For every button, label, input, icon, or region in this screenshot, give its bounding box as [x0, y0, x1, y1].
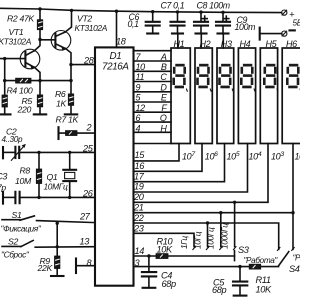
node rail-C7 — [176, 10, 179, 13]
node R8 top — [37, 151, 40, 154]
svg-text:"Работа": "Работа" — [244, 256, 279, 265]
wire pin 14 line — [134, 255, 235, 257]
svg-text:1000Гц: 1000Гц — [219, 223, 229, 249]
svg-text:C: C — [160, 72, 167, 82]
resistor R11 — [249, 264, 261, 269]
svg-text:B: B — [161, 62, 167, 72]
svg-text:R2 47K: R2 47K — [7, 14, 35, 24]
wire ladder cell top (pin15 cell) — [134, 143, 172, 145]
node VT2 emitter / R4 right — [69, 79, 72, 82]
svg-text:S1: S1 — [12, 210, 22, 220]
svg-text:KT3102A: KT3102A — [0, 37, 32, 47]
switch S1 — [2, 216, 95, 223]
svg-text:28: 28 — [83, 56, 95, 66]
svg-text:14: 14 — [135, 246, 145, 256]
wire 1000Hz stub — [234, 202, 236, 246]
svg-text:19: 19 — [134, 182, 144, 192]
switch S2 — [2, 240, 95, 247]
display labels H1-H6 — [174, 39, 298, 49]
capacitor C4 — [142, 256, 156, 288]
svg-text:12: 12 — [136, 103, 146, 113]
resistor R7 — [59, 127, 96, 139]
svg-text:H1: H1 — [174, 39, 185, 49]
svg-text:4..30p: 4..30p — [2, 135, 23, 144]
S4 contact ticks — [277, 247, 295, 251]
capacitor C8 and H2 top stub — [194, 12, 208, 48]
svg-text:10Гц: 10Гц — [192, 231, 202, 249]
svg-text:68p: 68p — [212, 285, 227, 295]
svg-text:7216A: 7216A — [102, 61, 129, 72]
svg-text:C7 0,1: C7 0,1 — [161, 0, 185, 10]
resistor R8 — [36, 152, 41, 197]
wire pin 18 — [116, 11, 118, 47]
node rail-C8 — [199, 10, 202, 13]
node rail-R2 — [38, 7, 41, 10]
bottom pins 15-23 — [133, 150, 145, 233]
wire 100Hz stub — [220, 213, 222, 247]
svg-text:H3: H3 — [221, 39, 232, 49]
svg-text:H2: H2 — [200, 39, 211, 49]
wire pin 20 to H5 — [134, 144, 269, 203]
svg-text:21: 21 — [133, 203, 144, 213]
svg-text:S3: S3 — [238, 245, 250, 255]
segment ladder lines A-H — [134, 51, 172, 133]
svg-text:С3: С3 — [0, 172, 8, 182]
resistor R2 — [37, 9, 42, 40]
node pin21/H6 — [291, 211, 294, 214]
node S1 line / R9 — [56, 222, 59, 225]
wire pin 3 line — [134, 266, 279, 268]
svg-text:"Фиксация": "Фиксация" — [1, 224, 42, 234]
wire pin 22 to S4 left contact — [134, 223, 279, 249]
wire pin 23 to 1Hz stub — [134, 233, 195, 246]
node rail-pin18 — [115, 10, 118, 13]
node rail-C6 — [151, 10, 154, 13]
svg-text:100Гц: 100Гц — [206, 227, 216, 249]
wire pin 15 to H1 — [134, 144, 180, 161]
capacitor C2 (trimmer) — [3, 144, 95, 161]
svg-text:C8 100m: C8 100m — [197, 0, 230, 10]
transistor VT2 — [51, 10, 71, 94]
resistor R6 — [68, 94, 73, 115]
electrolytic plus C8 — [202, 16, 207, 21]
svg-text:10K: 10K — [256, 285, 273, 295]
svg-text:0,1: 0,1 — [128, 19, 140, 29]
rotated labels 1Hz-1000Hz — [179, 223, 230, 249]
node C4 top — [147, 254, 150, 257]
svg-text:9: 9 — [136, 82, 141, 92]
resistor R4 — [5, 78, 71, 83]
svg-text:68p: 68p — [162, 279, 177, 289]
svg-text:VT2: VT2 — [77, 14, 92, 24]
node R8 bottom — [37, 196, 40, 199]
resistor R5 — [37, 95, 42, 115]
svg-text:S2: S2 — [8, 236, 18, 246]
svg-text:"Работа": "Работа" — [293, 254, 301, 263]
svg-text:220: 220 — [17, 104, 32, 114]
7-seg digits — [172, 64, 187, 92]
wire pin 16 to H2 — [134, 144, 203, 172]
ground R3 — [0, 113, 11, 115]
segment letters A-H — [160, 52, 168, 134]
svg-text:Q: Q — [160, 113, 167, 123]
wire 10Hz stub — [207, 223, 209, 247]
capacitor C3 (label cut) — [3, 192, 95, 204]
node crystal bottom — [68, 196, 71, 199]
resistor R9 — [55, 223, 60, 276]
capacitor C7 and H1 top stub — [171, 12, 185, 48]
svg-text:KT3102A: KT3102A — [75, 23, 108, 33]
svg-text:R7 1K: R7 1K — [56, 114, 80, 124]
svg-text:2: 2 — [86, 123, 92, 133]
svg-text:16: 16 — [135, 161, 146, 171]
capacitor C5 — [233, 267, 247, 296]
svg-text:H6: H6 — [286, 39, 297, 49]
svg-text:7p: 7p — [0, 182, 6, 192]
ground R6 — [65, 113, 77, 115]
right pins 7,10,11,9,5,12,6,4 — [136, 52, 146, 134]
svg-text:H: H — [160, 123, 167, 133]
svg-text:100m: 100m — [235, 22, 256, 32]
svg-text:22: 22 — [133, 213, 144, 223]
wire +5V top rail — [0, 8, 282, 12]
svg-text:11: 11 — [136, 72, 145, 82]
svg-text:15: 15 — [135, 150, 146, 160]
digit weight labels 10^7..10^3 — [182, 151, 308, 162]
quartz crystal Q1 — [63, 152, 76, 197]
switch S4 wiper — [279, 252, 289, 266]
node rail-VT2 collector — [70, 9, 73, 12]
svg-text:25: 25 — [82, 143, 94, 153]
displays H1-H6 boxes — [171, 48, 301, 144]
node S2 line / R9 — [56, 245, 59, 248]
wire pin 28 — [71, 64, 95, 66]
op-amp U1 : IC D1 7216A box — [95, 47, 134, 285]
node VT2 emitter / pin28 — [69, 63, 72, 66]
svg-text:102: 102 — [295, 151, 301, 162]
node R4/VT1 emitter/R5 — [38, 79, 41, 82]
svg-text:18: 18 — [116, 37, 127, 47]
wire pin 19 to H4 — [134, 144, 248, 193]
svg-text:26: 26 — [82, 188, 94, 198]
svg-text:R4 100: R4 100 — [7, 86, 33, 96]
svg-text:VT1: VT1 — [9, 27, 24, 37]
wire pin 8 with bar — [76, 259, 95, 274]
svg-text:R8: R8 — [20, 166, 31, 176]
svg-text:4: 4 — [136, 123, 141, 133]
svg-text:1K: 1K — [56, 98, 67, 108]
svg-text:10K: 10K — [157, 244, 174, 254]
svg-text:10: 10 — [136, 62, 146, 72]
svg-text:A: A — [160, 52, 167, 62]
+5V terminal — [282, 10, 287, 16]
wire pin 21 to H6 and S4 right contact — [134, 212, 294, 214]
electrolytic plus C9 — [224, 16, 229, 21]
svg-text:22K: 22K — [37, 263, 54, 273]
node R4 left — [3, 79, 6, 82]
svg-text:20: 20 — [133, 192, 145, 202]
svg-text:H4: H4 — [240, 39, 251, 49]
node crystal top — [68, 151, 71, 154]
node C5 top — [238, 265, 241, 268]
resistor R3 (label cut off) — [2, 95, 7, 114]
S3 contact ticks — [193, 246, 237, 250]
wire pin 17 to H3 — [134, 144, 225, 182]
svg-text:10M: 10M — [15, 176, 32, 186]
wire VT2 base — [40, 39, 55, 41]
svg-text:H5: H5 — [266, 39, 278, 49]
svg-text:F: F — [161, 103, 167, 113]
svg-text:5В: 5В — [293, 19, 301, 28]
svg-text:13: 13 — [80, 237, 91, 247]
ground R5 — [34, 113, 46, 115]
transistor VT1 — [0, 40, 40, 95]
svg-text:6: 6 — [136, 113, 141, 123]
svg-text:1Гц: 1Гц — [179, 236, 189, 249]
switch S3 wiper tick — [234, 251, 236, 261]
node R2/VT1 collector/VT2 base — [38, 38, 41, 41]
resistor R10 — [156, 254, 168, 259]
svg-text:27: 27 — [79, 211, 91, 221]
node VT1 base / R3 — [3, 57, 6, 60]
svg-text:17: 17 — [134, 171, 145, 181]
capacitor C6 — [146, 12, 160, 34]
svg-text:10МГц: 10МГц — [44, 181, 68, 191]
svg-text:S4: S4 — [289, 264, 300, 274]
capacitor C9 and H3 top stub — [216, 12, 230, 48]
svg-text:D: D — [160, 82, 167, 92]
wire left vertical — [4, 59, 6, 95]
-5V terminal and wire — [260, 28, 295, 40]
node rail-C9 — [221, 11, 224, 14]
svg-text:23: 23 — [133, 223, 145, 233]
svg-text:"Сброс": "Сброс" — [1, 249, 30, 259]
ground R9 — [51, 275, 64, 277]
